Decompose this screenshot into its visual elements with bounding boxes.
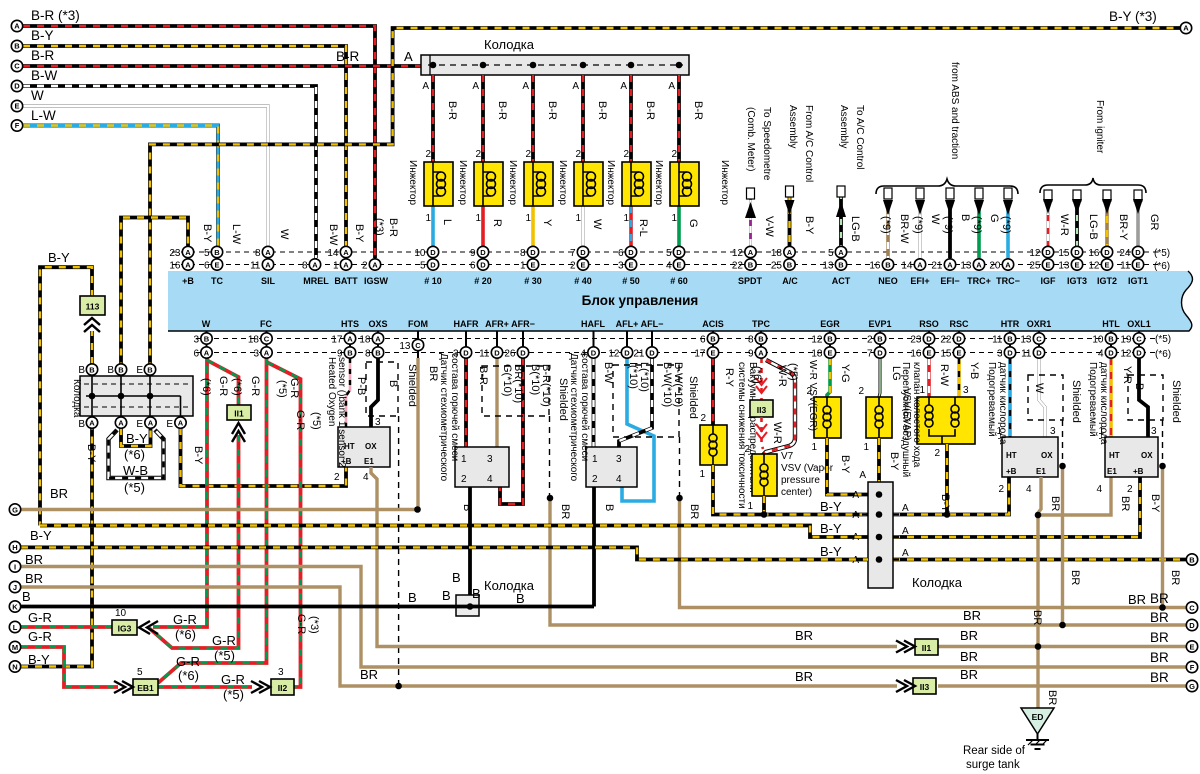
svg-text:E: E bbox=[136, 419, 143, 430]
idle air bypass valve bbox=[900, 358, 980, 515]
wire E W to SIL bbox=[23, 106, 268, 246]
svg-text:surge tank: surge tank bbox=[966, 759, 1020, 771]
svg-text:C: C bbox=[1136, 334, 1142, 343]
svg-text:BR: BR bbox=[963, 608, 981, 623]
svg-text:II1: II1 bbox=[234, 409, 244, 419]
svg-text:Инжектор: Инжектор bbox=[605, 160, 616, 205]
svg-text:W: W bbox=[1033, 383, 1045, 394]
svg-text:LG-B: LG-B bbox=[849, 216, 861, 242]
svg-text:19: 19 bbox=[1120, 334, 1132, 345]
A/C control assembly input bbox=[785, 105, 816, 246]
svg-text:2: 2 bbox=[475, 149, 481, 160]
svg-text:A: A bbox=[668, 81, 675, 92]
EFI+ W bbox=[919, 200, 922, 258]
svg-text:sensor ()bank 1 sensor 2: sensor ()bank 1 sensor 2 bbox=[336, 357, 347, 468]
svg-text:R-Y: R-Y bbox=[723, 368, 735, 388]
svg-text:RSO: RSO bbox=[919, 319, 939, 329]
TPC / II3 / V7 VSV bbox=[744, 358, 833, 515]
svg-text:состава горючей смеси: состава горючей смеси bbox=[579, 353, 590, 461]
G-R labels bbox=[173, 376, 322, 702]
svg-text:A: A bbox=[852, 510, 859, 521]
svg-text:5: 5 bbox=[666, 248, 672, 259]
svg-text:B-W(*10): B-W(*10) bbox=[661, 362, 673, 407]
svg-text:ED: ED bbox=[1032, 712, 1044, 722]
EFI- B bbox=[948, 200, 952, 258]
svg-text:Датчик стехиометрического: Датчик стехиометрического bbox=[438, 353, 449, 482]
ACT to A/C control assembly bbox=[836, 105, 865, 246]
svg-text:E: E bbox=[956, 348, 961, 357]
svg-text:(*5): (*5) bbox=[276, 380, 288, 398]
svg-text:B-Y: B-Y bbox=[820, 499, 842, 514]
svg-text:G-R: G-R bbox=[217, 376, 229, 396]
ECU block (Блок управления) bbox=[168, 271, 1192, 331]
svg-text:датчик кислорода: датчик кислорода bbox=[997, 362, 1008, 445]
svg-text:8: 8 bbox=[748, 334, 754, 345]
svg-text:(*9): (*9) bbox=[942, 216, 954, 234]
svg-text:+B: +B bbox=[182, 276, 194, 286]
svg-text:R-W: R-W bbox=[938, 364, 950, 387]
injector connector bar (Колодка) bbox=[404, 37, 689, 75]
svg-text:15: 15 bbox=[940, 348, 952, 359]
svg-text:B-W: B-W bbox=[602, 362, 614, 384]
svg-text:BR: BR bbox=[1049, 496, 1061, 511]
svg-text:G-R: G-R bbox=[221, 672, 245, 687]
svg-text:11: 11 bbox=[1120, 260, 1131, 271]
svg-text:D: D bbox=[530, 248, 536, 257]
svg-text:E: E bbox=[166, 419, 173, 430]
FOM BR drop bbox=[416, 358, 419, 510]
svg-text:5: 5 bbox=[828, 248, 834, 259]
svg-text:B: B bbox=[472, 586, 481, 601]
svg-text:pressure: pressure bbox=[781, 475, 820, 486]
svg-text:(*5): (*5) bbox=[214, 648, 235, 663]
svg-text:OX: OX bbox=[1141, 451, 1153, 460]
wire A B-R (*3) to IGSW bbox=[23, 26, 375, 258]
svg-text:(*9): (*9) bbox=[1000, 216, 1012, 234]
svg-text:A/C: A/C bbox=[782, 276, 798, 286]
svg-text:1: 1 bbox=[811, 442, 817, 453]
svg-text:3: 3 bbox=[487, 454, 493, 465]
svg-text:A: A bbox=[312, 260, 318, 269]
svg-text:11: 11 bbox=[1021, 348, 1032, 359]
svg-text:D: D bbox=[520, 348, 526, 357]
svg-text:K: K bbox=[12, 602, 18, 611]
svg-text:D: D bbox=[1036, 348, 1042, 357]
wire G-R (*3): ECU pin FC jog down to II2 bbox=[267, 362, 301, 687]
svg-text:E1: E1 bbox=[364, 457, 374, 466]
svg-text:21: 21 bbox=[633, 348, 645, 359]
svg-text:10: 10 bbox=[414, 248, 426, 259]
jumper loops B-Y (*6) / W-B (*5) bbox=[109, 428, 164, 495]
svg-text:G: G bbox=[12, 505, 18, 514]
svg-text:16: 16 bbox=[869, 260, 881, 271]
svg-text:OXR1: OXR1 bbox=[1027, 319, 1052, 329]
svg-text:GR: GR bbox=[1148, 214, 1160, 231]
svg-text:AFR−: AFR− bbox=[511, 319, 535, 329]
svg-text:II3: II3 bbox=[757, 405, 767, 415]
svg-text:BR-W: BR-W bbox=[898, 214, 910, 244]
svg-text:4: 4 bbox=[666, 260, 672, 271]
IGF W-R bbox=[1047, 202, 1050, 246]
dashed pin rows above and below ECU bbox=[172, 251, 1160, 253]
svg-text:B: B bbox=[442, 588, 451, 603]
injector 6 (#60) bbox=[653, 75, 730, 246]
svg-text:BR: BR bbox=[1069, 570, 1081, 585]
svg-text:B-Y: B-Y bbox=[48, 250, 70, 265]
svg-text:B: B bbox=[1133, 383, 1145, 390]
svg-text:BR: BR bbox=[1150, 591, 1169, 606]
svg-text:W: W bbox=[278, 229, 290, 240]
svg-text:2: 2 bbox=[998, 484, 1004, 495]
svg-text:B: B bbox=[787, 260, 793, 269]
svg-text:(*6): (*6) bbox=[178, 668, 199, 683]
wire B-Y: 113 net bus to tall connector bbox=[40, 526, 868, 538]
svg-text:D: D bbox=[1104, 248, 1110, 257]
svg-text:BR: BR bbox=[25, 571, 43, 586]
left connector (Колодка) bbox=[71, 365, 193, 430]
wire B-Y connector pin A(4) to O2 sensor +B bbox=[181, 428, 347, 486]
svg-text:10: 10 bbox=[115, 608, 127, 619]
svg-text:Перепускной воздушный: Перепускной воздушный bbox=[900, 362, 911, 477]
svg-text:B: B bbox=[959, 214, 971, 221]
svg-text:G-R: G-R bbox=[295, 614, 307, 634]
svg-text:22: 22 bbox=[732, 260, 744, 271]
svg-text:B-R: B-R bbox=[596, 101, 608, 120]
svg-text:W-B: W-B bbox=[123, 463, 148, 478]
svg-text:HAFL: HAFL bbox=[581, 319, 605, 329]
svg-text:A: A bbox=[89, 418, 95, 427]
svg-text:(*6): (*6) bbox=[751, 366, 763, 384]
svg-text:14: 14 bbox=[901, 260, 913, 271]
wire G-R: circle M to EB1 bbox=[21, 647, 118, 687]
svg-text:3: 3 bbox=[618, 260, 624, 271]
top-left harness wires bbox=[11, 8, 1191, 526]
svg-text:D: D bbox=[430, 260, 436, 269]
svg-text:4: 4 bbox=[580, 348, 586, 359]
svg-text:OXL1: OXL1 bbox=[1127, 319, 1151, 329]
svg-text:20: 20 bbox=[989, 260, 1001, 271]
svg-text:B-Y: B-Y bbox=[1149, 494, 1161, 513]
svg-text:B-Y: B-Y bbox=[939, 494, 951, 513]
svg-text:(*6): (*6) bbox=[175, 627, 196, 642]
svg-text:B-Y: B-Y bbox=[192, 446, 204, 465]
svg-text:B-Y: B-Y bbox=[820, 521, 842, 536]
svg-text:A: A bbox=[787, 248, 793, 257]
svg-text:Инжектор: Инжектор bbox=[507, 160, 518, 205]
svg-text:B: B bbox=[1108, 334, 1114, 343]
svg-text:TRC+: TRC+ bbox=[967, 276, 991, 286]
svg-text:17: 17 bbox=[331, 334, 343, 345]
svg-text:B: B bbox=[603, 504, 615, 511]
svg-text:13: 13 bbox=[960, 260, 972, 271]
svg-text:OX: OX bbox=[365, 442, 377, 451]
svg-text:B: B bbox=[748, 260, 754, 269]
svg-text:B-W: B-W bbox=[31, 68, 58, 83]
svg-text:1: 1 bbox=[623, 213, 629, 224]
svg-text:4: 4 bbox=[1026, 484, 1032, 495]
wire G-R: circle L to IG3 bbox=[21, 625, 112, 629]
svg-text:B-Y (*3): B-Y (*3) bbox=[1109, 9, 1157, 24]
II1 inline on row E bbox=[915, 639, 938, 655]
pin circles bbox=[9, 246, 1197, 691]
svg-text:D: D bbox=[1108, 348, 1114, 357]
svg-text:8: 8 bbox=[302, 260, 308, 271]
svg-text:G-R: G-R bbox=[28, 610, 52, 625]
svg-text:Инжектор: Инжектор bbox=[407, 160, 418, 205]
wire B-Y connector pin A to N bbox=[21, 428, 92, 667]
svg-text:C: C bbox=[1036, 334, 1042, 343]
svg-text:(*5): (*5) bbox=[1155, 334, 1171, 345]
svg-text:W: W bbox=[591, 219, 603, 230]
svg-text:BR(*10): BR(*10) bbox=[512, 364, 524, 403]
svg-text:W-R: W-R bbox=[1058, 214, 1070, 236]
svg-text:18: 18 bbox=[771, 248, 783, 259]
svg-text:E: E bbox=[926, 348, 931, 357]
VSV(EVAP) bbox=[858, 358, 912, 482]
svg-text:A: A bbox=[859, 470, 866, 481]
svg-text:(*3): (*3) bbox=[308, 616, 320, 634]
svg-text:26: 26 bbox=[504, 348, 516, 359]
svg-text:(*5): (*5) bbox=[310, 412, 322, 430]
wire B-Y (*3): connector E pin up and across top to right circle A bbox=[150, 28, 1181, 370]
svg-text:2: 2 bbox=[934, 448, 940, 459]
svg-text:1: 1 bbox=[525, 213, 531, 224]
svg-text:12: 12 bbox=[1029, 248, 1041, 259]
svg-text:L: L bbox=[13, 623, 18, 632]
wire G-R (*6): IG3 to ECU pin W bbox=[153, 358, 207, 627]
svg-text:BR: BR bbox=[688, 504, 700, 519]
svg-text:E: E bbox=[1045, 260, 1050, 269]
svg-text:A: A bbox=[1005, 260, 1011, 269]
E1 to BR row E bbox=[371, 467, 897, 647]
svg-text:B: B bbox=[1007, 334, 1013, 343]
svg-text:9: 9 bbox=[470, 248, 476, 259]
svg-text:D: D bbox=[676, 248, 682, 257]
svg-text:E: E bbox=[1074, 260, 1079, 269]
injector 3 (#30) bbox=[507, 75, 558, 246]
II3 inline on row G bbox=[913, 678, 936, 694]
svg-text:BR: BR bbox=[795, 628, 813, 643]
svg-text:C: C bbox=[264, 334, 270, 343]
svg-text:IGT3: IGT3 bbox=[1067, 276, 1087, 286]
svg-text:14: 14 bbox=[327, 248, 339, 259]
svg-text:8: 8 bbox=[520, 248, 526, 259]
injector 5 (#50) bbox=[605, 75, 656, 246]
svg-text:Подогреваемый: Подогреваемый bbox=[1087, 362, 1098, 437]
svg-text:Колодка: Колодка bbox=[484, 578, 535, 593]
svg-text:9: 9 bbox=[748, 348, 754, 359]
wire G-R (*6): ECU pin FC down to EB1 diagonal bbox=[158, 358, 267, 683]
svg-text:L-W: L-W bbox=[230, 224, 242, 245]
svg-text:5: 5 bbox=[204, 248, 210, 259]
svg-text:D: D bbox=[1136, 348, 1142, 357]
svg-text:1: 1 bbox=[699, 469, 705, 480]
svg-text:RSC: RSC bbox=[949, 319, 969, 329]
svg-text:Assembly: Assembly bbox=[838, 105, 849, 148]
svg-text:D: D bbox=[628, 248, 634, 257]
svg-text:Колодка: Колодка bbox=[71, 379, 82, 418]
svg-text:A: A bbox=[838, 248, 844, 257]
svg-text:12: 12 bbox=[732, 248, 744, 259]
svg-text:6: 6 bbox=[470, 260, 476, 271]
svg-text:D: D bbox=[877, 348, 883, 357]
svg-text:A: A bbox=[372, 260, 378, 269]
svg-text:D: D bbox=[649, 348, 655, 357]
svg-text:A: A bbox=[902, 503, 909, 514]
svg-text:C: C bbox=[14, 62, 20, 71]
svg-text:2: 2 bbox=[425, 149, 431, 160]
svg-text:IG3: IG3 bbox=[118, 624, 132, 634]
igniter wires bbox=[1040, 100, 1160, 246]
svg-text:2: 2 bbox=[700, 413, 706, 424]
svg-text:B-Y: B-Y bbox=[839, 455, 851, 474]
svg-text:Rear side of: Rear side of bbox=[963, 745, 1026, 757]
svg-text:E: E bbox=[14, 102, 19, 111]
svg-text:3: 3 bbox=[997, 348, 1003, 359]
svg-text:B-R: B-R bbox=[644, 101, 656, 120]
svg-text:BR: BR bbox=[960, 667, 978, 682]
svg-text:3: 3 bbox=[278, 667, 284, 678]
svg-text:1: 1 bbox=[520, 260, 526, 271]
svg-text:A: A bbox=[422, 81, 429, 92]
svg-text:Assembly: Assembly bbox=[787, 105, 798, 148]
svg-text:G-R: G-R bbox=[176, 654, 200, 669]
svg-text:3: 3 bbox=[1151, 426, 1157, 437]
svg-text:25: 25 bbox=[771, 260, 783, 271]
mixture sensor 2 bbox=[568, 353, 1186, 608]
svg-text:D: D bbox=[430, 248, 436, 257]
svg-text:A: A bbox=[902, 526, 909, 537]
svg-text:Колодка: Колодка bbox=[912, 575, 963, 590]
svg-text:D: D bbox=[480, 260, 486, 269]
svg-text:B: B bbox=[838, 260, 844, 269]
svg-text:EGR: EGR bbox=[820, 319, 840, 329]
svg-text:B(*10): B(*10) bbox=[529, 364, 541, 395]
svg-text:B: B bbox=[827, 334, 833, 343]
svg-text:BR: BR bbox=[795, 669, 813, 684]
svg-text:E: E bbox=[827, 348, 832, 357]
svg-text:B-Y: B-Y bbox=[30, 528, 52, 543]
svg-text:BR: BR bbox=[1119, 496, 1131, 511]
svg-text:G: G bbox=[1189, 682, 1195, 691]
svg-text:13: 13 bbox=[1058, 260, 1070, 271]
svg-text:25: 25 bbox=[1029, 260, 1041, 271]
svg-text:AFR+: AFR+ bbox=[485, 319, 509, 329]
svg-text:(*6): (*6) bbox=[124, 447, 145, 462]
svg-text:From A/C Control: From A/C Control bbox=[803, 105, 814, 182]
VSV(EGR) bbox=[806, 358, 868, 495]
wire B-Y: connector B pin to +B bbox=[121, 218, 188, 370]
svg-text:A: A bbox=[1183, 24, 1189, 33]
svg-text:B-Y: B-Y bbox=[353, 224, 365, 243]
svg-text:B-W(*10): B-W(*10) bbox=[672, 362, 684, 407]
svg-text:D: D bbox=[14, 82, 20, 91]
svg-text:(*6): (*6) bbox=[231, 378, 243, 396]
svg-text:1: 1 bbox=[747, 501, 753, 512]
injector 4 (#40) bbox=[557, 75, 608, 246]
svg-text:B: B bbox=[885, 260, 891, 269]
svg-text:BR: BR bbox=[1150, 670, 1169, 685]
TRC- L bbox=[1006, 200, 1010, 258]
II2 bbox=[271, 679, 294, 695]
wire B-Y: circle H to tall connector bbox=[21, 547, 868, 559]
EB1 bbox=[133, 679, 158, 695]
svg-text:16: 16 bbox=[1088, 248, 1100, 259]
svg-text:# 40: # 40 bbox=[574, 276, 592, 286]
svg-text:G-R: G-R bbox=[249, 376, 261, 396]
svg-text:TC: TC bbox=[211, 276, 223, 286]
svg-text:A: A bbox=[852, 490, 859, 501]
svg-text:B-R: B-R bbox=[387, 218, 399, 237]
svg-text:B: B bbox=[204, 334, 210, 343]
svg-text:1: 1 bbox=[592, 454, 598, 465]
svg-text:BR: BR bbox=[1169, 570, 1181, 585]
svg-text:BR: BR bbox=[1046, 690, 1058, 705]
svg-text:1: 1 bbox=[863, 442, 869, 453]
svg-text:E: E bbox=[580, 260, 585, 269]
svg-text:P-B: P-B bbox=[355, 377, 367, 395]
svg-text:2: 2 bbox=[592, 474, 598, 485]
svg-text:L-W: L-W bbox=[31, 108, 56, 123]
svg-text:7: 7 bbox=[570, 248, 576, 259]
svg-text:1: 1 bbox=[475, 213, 481, 224]
svg-text:A: A bbox=[347, 334, 353, 343]
svg-text:B: B bbox=[408, 590, 417, 605]
svg-text:B-W: B-W bbox=[327, 224, 339, 246]
svg-text:BR: BR bbox=[1031, 610, 1043, 625]
wire B: circle K to mixture sensor 2 pin 2 bbox=[21, 605, 594, 609]
svg-text:12: 12 bbox=[1120, 348, 1132, 359]
svg-text:4: 4 bbox=[616, 474, 622, 485]
IGT2 BR-Y bbox=[1105, 202, 1109, 246]
svg-text:A: A bbox=[118, 418, 124, 427]
svg-text:2: 2 bbox=[671, 149, 677, 160]
svg-text:18: 18 bbox=[811, 348, 823, 359]
svg-text:B: B bbox=[452, 570, 461, 585]
svg-text:6: 6 bbox=[700, 334, 706, 345]
svg-text:1: 1 bbox=[575, 213, 581, 224]
svg-text:D: D bbox=[1074, 248, 1080, 257]
tall connector (Колодка) bbox=[820, 452, 1186, 590]
svg-text:G-R: G-R bbox=[212, 633, 236, 648]
right heated oxygen sensor 2 bbox=[1087, 358, 1182, 608]
svg-text:3: 3 bbox=[453, 348, 459, 359]
svg-text:B-R: B-R bbox=[546, 101, 558, 120]
svg-text:1: 1 bbox=[461, 454, 467, 465]
svg-text:A: A bbox=[522, 81, 529, 92]
svg-text:(*9): (*9) bbox=[971, 216, 983, 234]
svg-text:A: A bbox=[917, 260, 923, 269]
svg-text:G: G bbox=[988, 214, 1000, 223]
SPDT to speedometer bbox=[745, 107, 775, 246]
svg-text:G-R: G-R bbox=[28, 629, 52, 644]
svg-text:M: M bbox=[12, 643, 18, 652]
wire G-R (*5): II1 down to IG3 diagonal bbox=[149, 435, 239, 648]
svg-text:F: F bbox=[1190, 663, 1195, 672]
svg-text:16: 16 bbox=[910, 348, 922, 359]
svg-text:9: 9 bbox=[337, 348, 343, 359]
svg-text:Y-G: Y-G bbox=[839, 364, 851, 383]
svg-text:D: D bbox=[1045, 248, 1051, 257]
svg-text:EB1: EB1 bbox=[137, 683, 154, 693]
svg-text:E: E bbox=[676, 260, 681, 269]
svg-text:# 30: # 30 bbox=[524, 276, 542, 286]
NEO BR-W bbox=[886, 200, 890, 258]
svg-text:BR: BR bbox=[1150, 630, 1169, 645]
svg-text:# 60: # 60 bbox=[670, 276, 688, 286]
svg-text:(*5): (*5) bbox=[223, 687, 244, 702]
svg-text:A: A bbox=[572, 81, 579, 92]
